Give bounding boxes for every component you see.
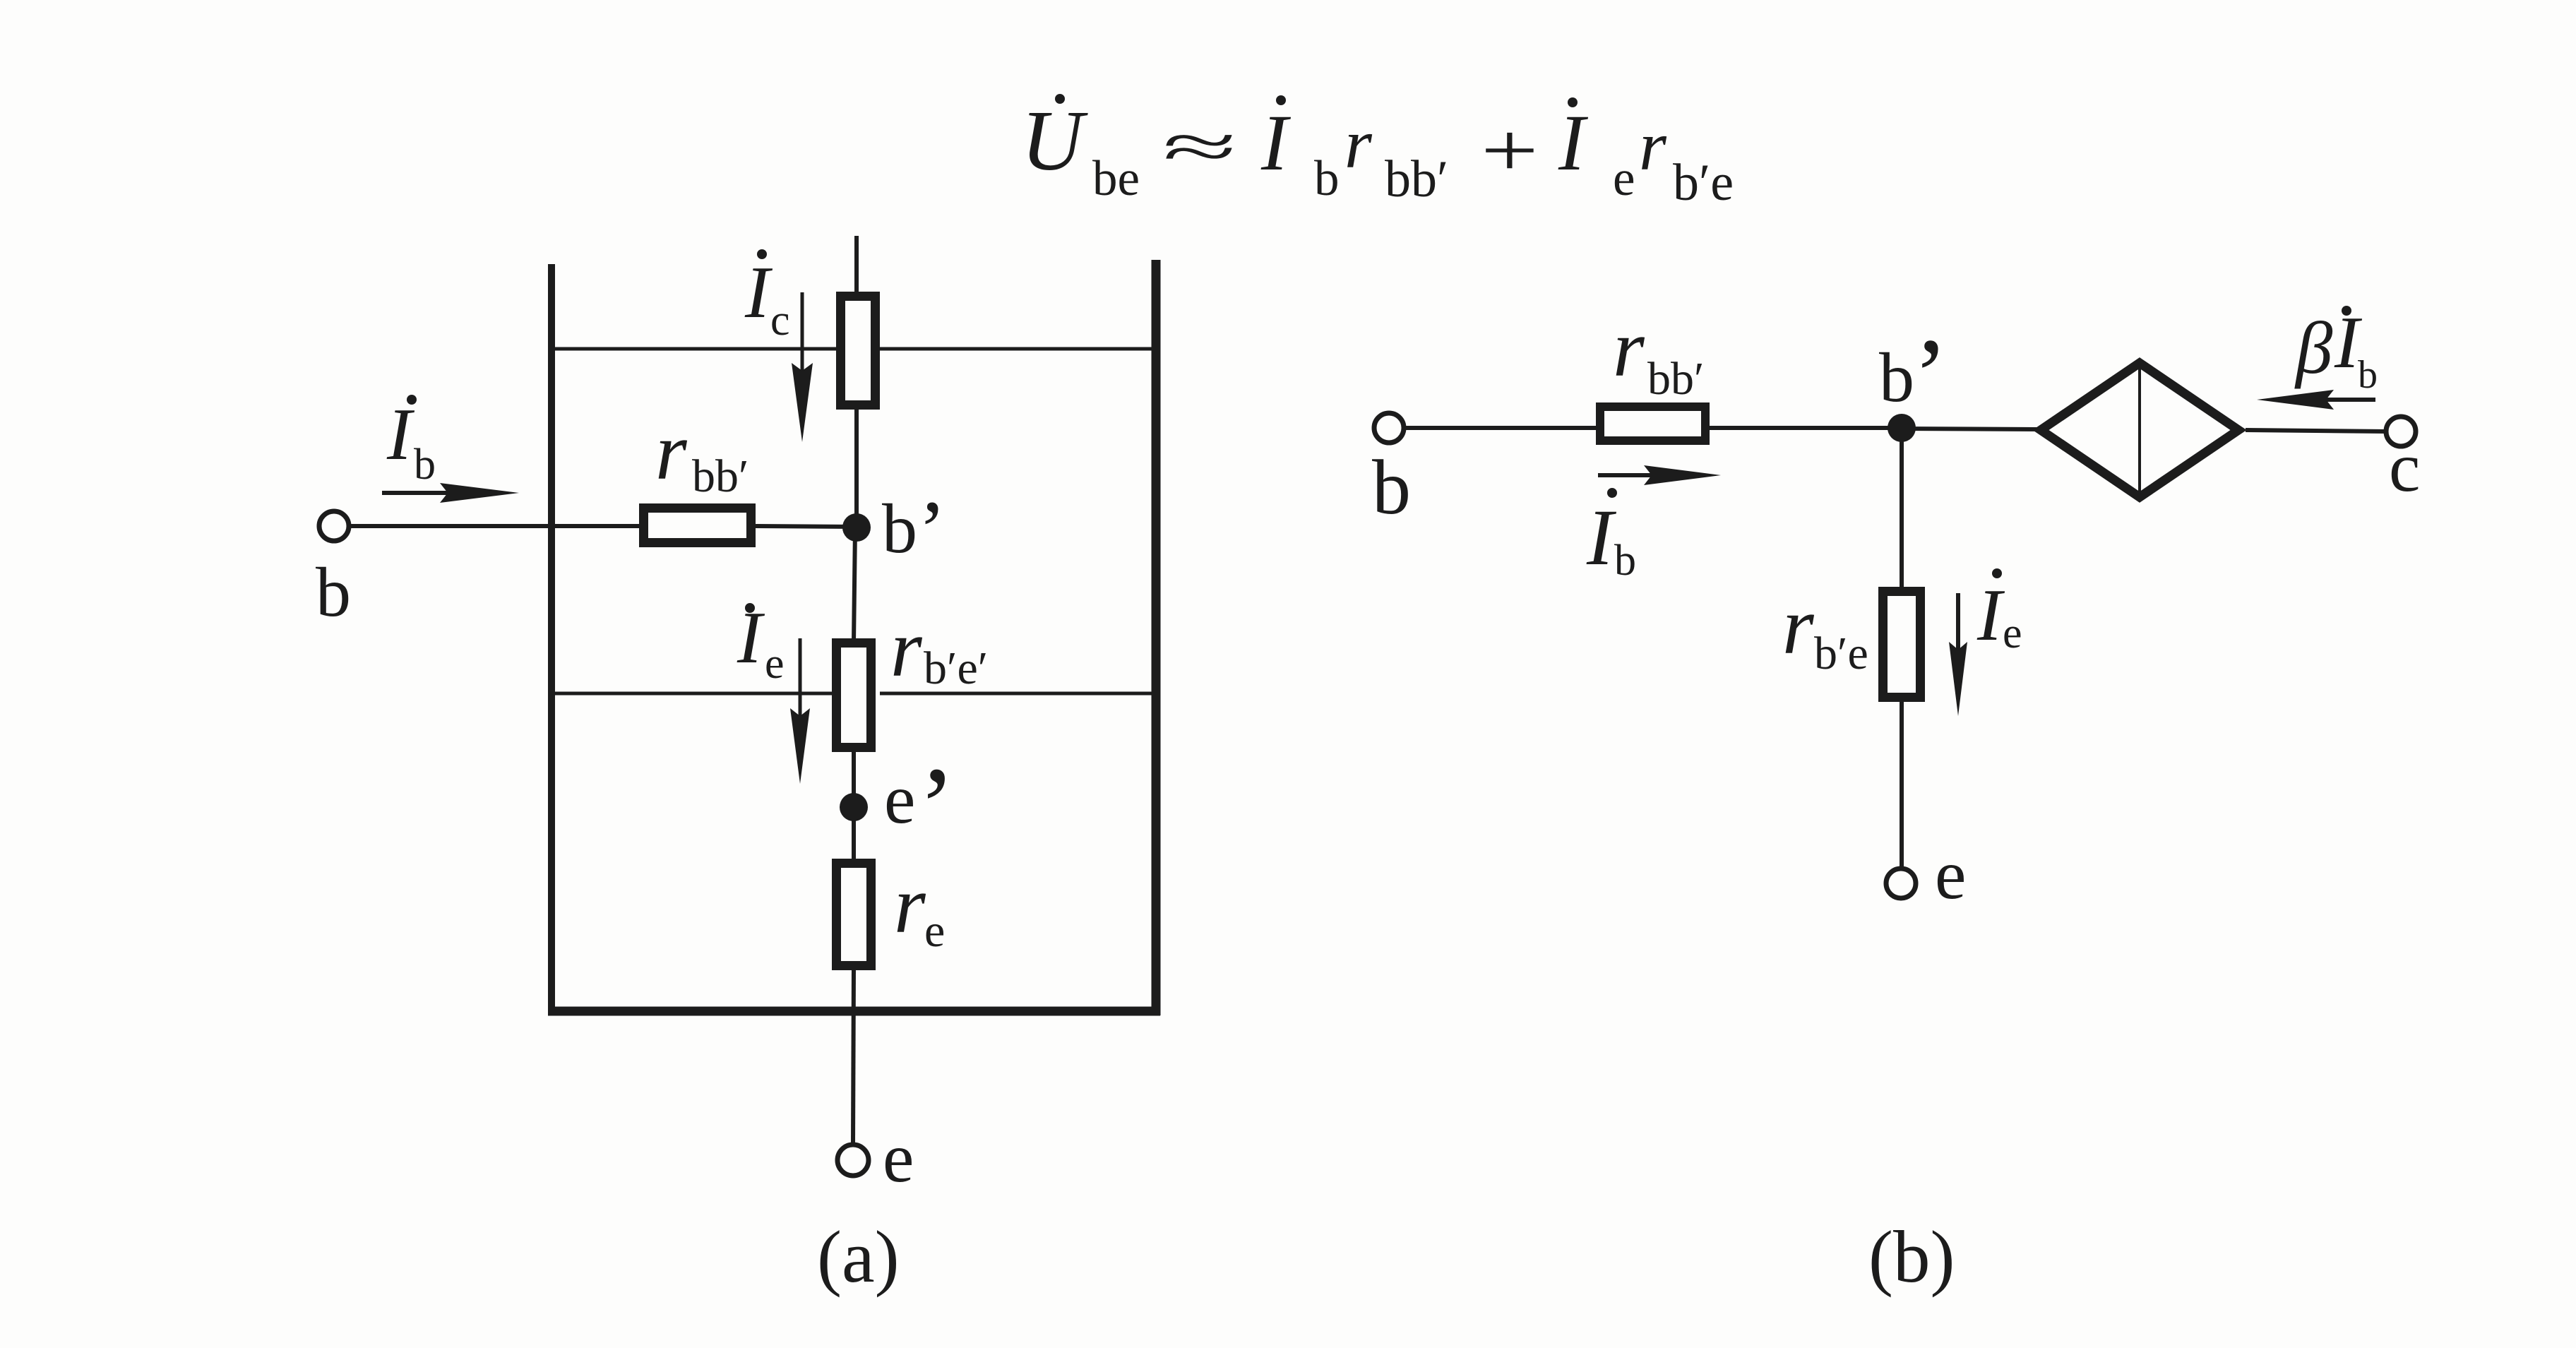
svg-text:r: r: [894, 860, 926, 950]
label Ie (b): [1976, 568, 2022, 657]
terminal b (b): [1374, 413, 1404, 443]
node label b' (a): [882, 483, 946, 577]
wire Rc to b' (a): [854, 410, 859, 527]
wire b' to rb'e' (a): [854, 527, 855, 643]
wire rb'e' to e' (a): [852, 747, 856, 794]
svg-text:I: I: [1586, 494, 1617, 582]
svg-text:b: b: [882, 489, 917, 568]
terminal e (b): [1886, 869, 1916, 898]
current arrow Ie (b): [1949, 593, 1967, 716]
wire e' to re (a): [852, 819, 856, 863]
wire b' to current source (b): [1902, 429, 2038, 429]
svg-text:r: r: [655, 407, 688, 496]
wire b to rbb' (b): [1405, 426, 1600, 430]
svg-text:be: be: [1092, 151, 1140, 206]
svg-text:bb′: bb′: [1647, 353, 1704, 405]
wire b to rbb' (a): [350, 524, 639, 528]
controlled current source beta*Ib diamond (b): [2041, 363, 2238, 497]
label rbb' (a): [655, 407, 749, 502]
wire collector top (a): [854, 236, 859, 296]
current arrow Ib (b): [1598, 465, 1721, 485]
svg-text:b: b: [1879, 338, 1914, 417]
formula Ube ~ Ib*rbb' + Ie*rb'e: [1021, 93, 1734, 212]
svg-text:I: I: [737, 596, 765, 679]
svg-text:’: ’: [918, 744, 955, 869]
svg-text:I: I: [1260, 99, 1292, 187]
wire b' to rb'e (b): [1900, 428, 1904, 592]
svg-text:e: e: [2003, 609, 2022, 657]
node label e' (a): [884, 744, 955, 869]
svg-text:c: c: [2389, 428, 2420, 506]
svg-text:b: b: [316, 553, 351, 631]
collector junction line (a): [551, 347, 1156, 351]
svg-text:e: e: [884, 760, 915, 838]
resistor rb'e' (a): [837, 643, 871, 748]
svg-text:b: b: [414, 441, 436, 489]
svg-text:e: e: [765, 640, 785, 688]
svg-text:r: r: [1782, 581, 1815, 671]
wire rb'e to e (b): [1900, 698, 1904, 868]
svg-text:I: I: [386, 393, 415, 475]
svg-text:bb′: bb′: [692, 451, 749, 502]
svg-text:bb′: bb′: [1385, 150, 1448, 208]
current arrow beta Ib (b): [2257, 390, 2375, 410]
svg-text:c: c: [770, 297, 790, 345]
svg-text:I: I: [744, 251, 773, 333]
svg-text:r: r: [890, 604, 923, 693]
label Ie (a): [737, 596, 785, 688]
svg-text:(b): (b): [1868, 1215, 1955, 1298]
wire re to e (a): [853, 966, 854, 1144]
svg-text:r: r: [1344, 105, 1373, 183]
svg-text:I: I: [1558, 99, 1589, 187]
label Ic (a): [744, 249, 790, 345]
resistor rbb' (b): [1600, 407, 1705, 441]
svg-text:(a): (a): [817, 1215, 900, 1298]
current arrow Ib (a): [382, 483, 519, 503]
svg-text:b′e′: b′e′: [924, 643, 988, 694]
svg-text:b: b: [2358, 353, 2378, 397]
svg-text:≈: ≈: [1162, 111, 1237, 182]
current arrow Ic (a): [792, 292, 813, 442]
label beta Ib (b): [2294, 301, 2378, 397]
svg-text:e: e: [883, 1119, 914, 1197]
node b' (a): [842, 513, 871, 542]
label rb'e' (a): [890, 604, 988, 694]
label rb'e (b): [1782, 581, 1868, 679]
svg-text:U: U: [1021, 93, 1088, 189]
svg-text:’: ’: [918, 483, 946, 577]
node b' (b): [1888, 414, 1916, 442]
svg-text:b′e: b′e: [1814, 628, 1868, 679]
wire current source to c (b): [2246, 430, 2386, 431]
resistor rbb' (a): [644, 508, 751, 543]
label rbb' (b): [1613, 304, 1704, 405]
wire rbb' to b' (a): [756, 526, 857, 527]
resistor re (a): [837, 864, 871, 966]
node e' (a): [840, 793, 868, 821]
label Ib (b): [1586, 488, 1636, 585]
resistor Rc (a): [841, 297, 876, 405]
svg-text:b′e: b′e: [1673, 154, 1734, 212]
label Ib (a): [386, 393, 436, 489]
svg-text:b: b: [1314, 151, 1340, 206]
svg-text:β: β: [2294, 306, 2333, 389]
svg-text:r: r: [1639, 107, 1667, 185]
svg-text:b: b: [1372, 444, 1411, 530]
terminal c (b): [2386, 417, 2416, 446]
svg-text:e: e: [924, 905, 945, 957]
svg-text:I: I: [1976, 573, 2005, 656]
collector region boundary right (a): [1152, 260, 1161, 1015]
svg-text:+: +: [1481, 108, 1539, 193]
current arrow Ie (a): [790, 638, 810, 784]
svg-text:e: e: [1613, 151, 1635, 206]
label re (a): [894, 860, 945, 957]
terminal e (a): [837, 1145, 869, 1176]
resistor rb'e (b): [1883, 592, 1921, 698]
svg-text:r: r: [1613, 304, 1645, 393]
node label b' (b): [1879, 317, 1948, 434]
wire rbb' to b' (b): [1710, 426, 1902, 430]
svg-text:e: e: [1935, 835, 1966, 914]
base region boundary left (a): [548, 264, 555, 1015]
svg-text:b: b: [1614, 537, 1636, 585]
terminal b (a): [319, 511, 349, 541]
svg-text:’: ’: [1913, 317, 1948, 434]
emitter junction line (a): [551, 692, 1156, 696]
emitter boundary bottom (a): [548, 1007, 1160, 1016]
